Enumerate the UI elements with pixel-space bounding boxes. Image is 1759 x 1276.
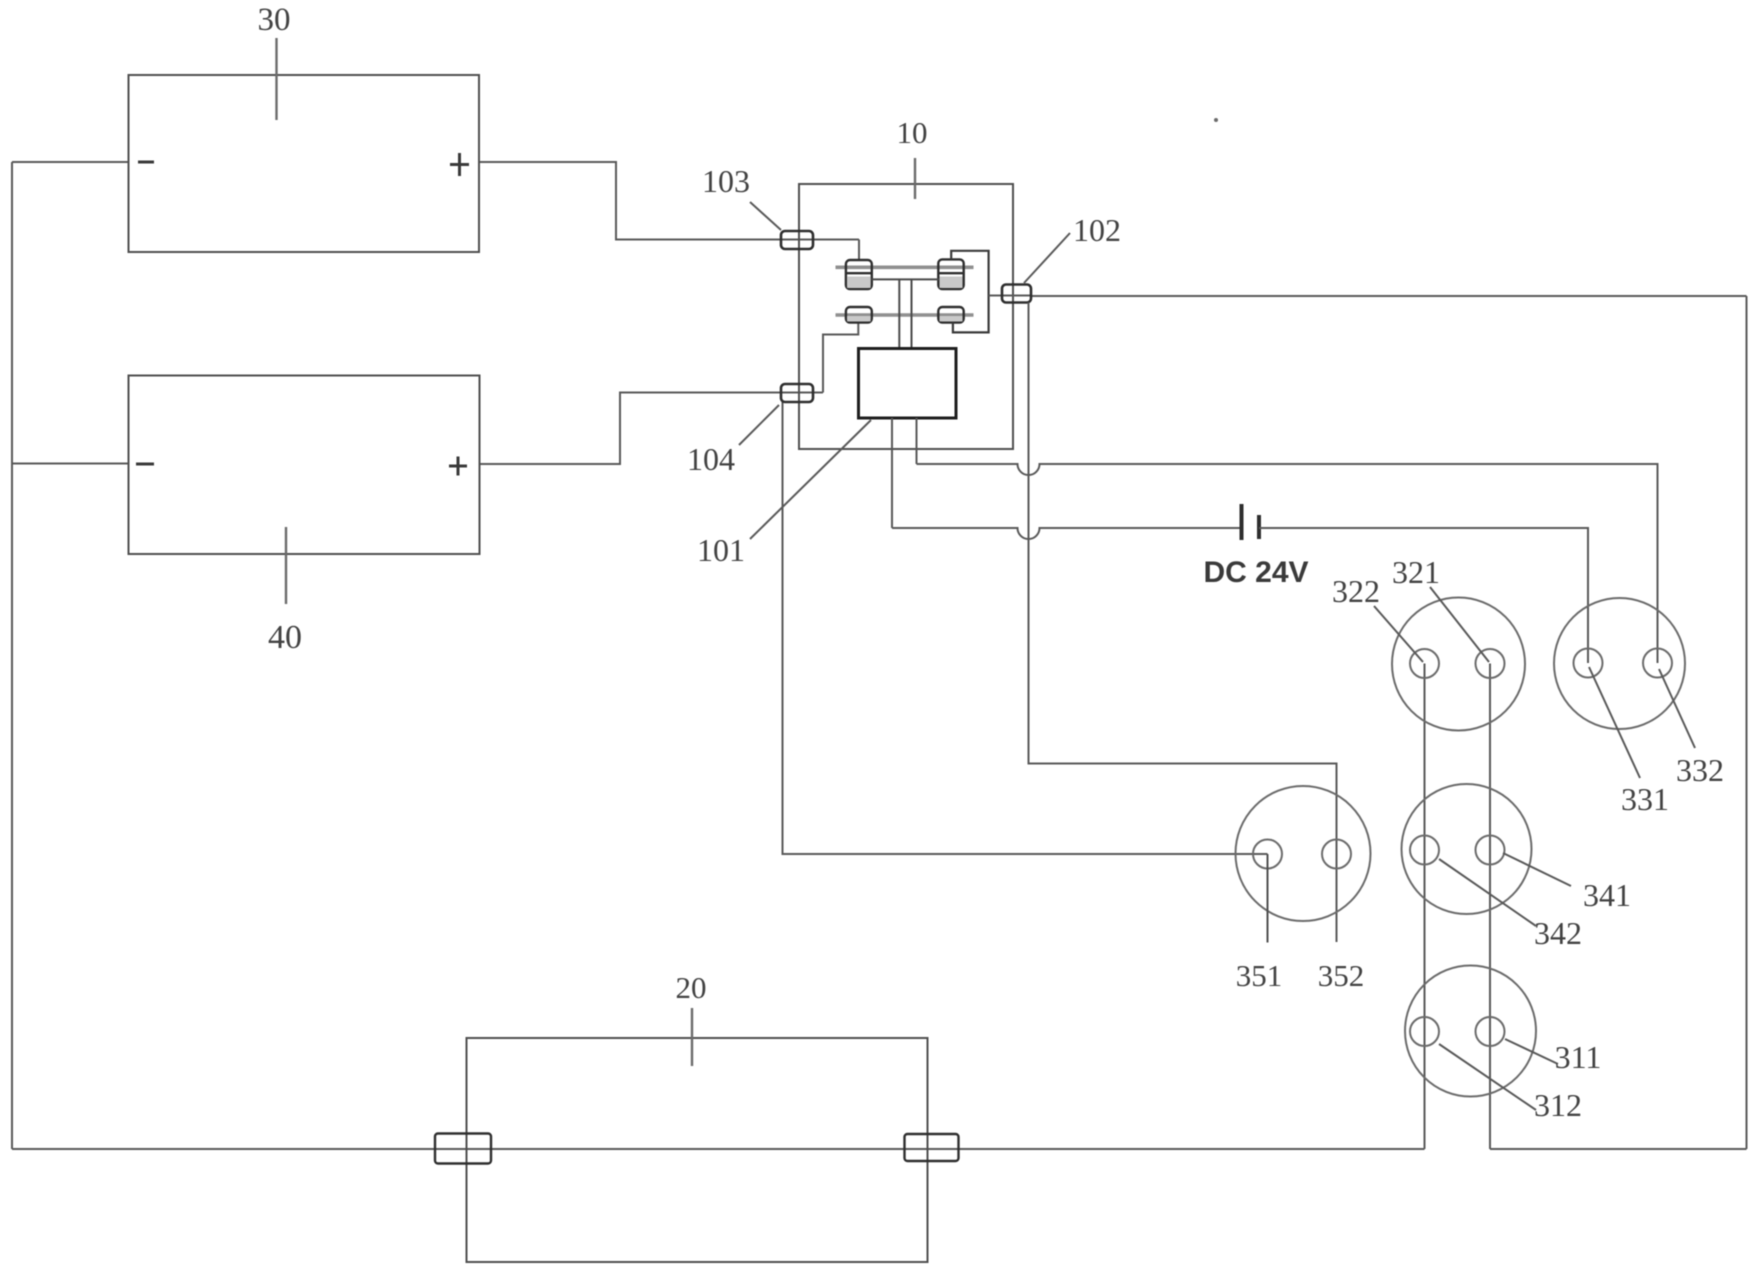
svg-text:322: 322	[1332, 573, 1380, 609]
svg-text:104: 104	[687, 441, 735, 477]
connector socket circle (351/352)	[1236, 786, 1371, 921]
pin 311	[1476, 1017, 1505, 1046]
wire inside box10 from terminal 104 to lower-left contact	[823, 323, 858, 393]
connector socket circle (321/322)	[1392, 598, 1525, 731]
pin 351	[1253, 840, 1282, 869]
pin 341	[1476, 836, 1505, 865]
svg-text:30: 30	[258, 2, 291, 38]
svg-text:351: 351	[1236, 958, 1283, 993]
contact lower-right	[938, 307, 963, 323]
wire battery40 minus	[12, 463, 129, 465]
wire coil left through battery to pin 331 with hop	[892, 528, 1240, 539]
pin 331	[1574, 649, 1603, 678]
bracket upper/lower right contacts to terminal 102	[951, 251, 988, 333]
box 40	[129, 376, 480, 555]
connector block box20 left	[435, 1134, 491, 1164]
wire node102 to right frame	[1031, 295, 1747, 297]
pin 322	[1410, 649, 1439, 678]
leader 332	[1659, 669, 1695, 748]
pin 312	[1410, 1017, 1439, 1046]
svg-text:40: 40	[268, 619, 302, 656]
leader 341	[1503, 853, 1571, 886]
leader 311	[1505, 1039, 1558, 1064]
svg-text:331: 331	[1621, 781, 1669, 817]
tick label 10	[914, 158, 916, 199]
leader 102	[1024, 233, 1070, 283]
connector socket circle (311/312)	[1405, 966, 1536, 1097]
wire terminal 102 down with bends	[1029, 303, 1337, 943]
tick label 40	[285, 527, 287, 604]
wire battery30 minus	[12, 161, 129, 163]
contact upper-left	[846, 260, 872, 289]
pin 321	[1476, 649, 1505, 678]
minus sign box30	[138, 161, 154, 164]
svg-text:102: 102	[1073, 212, 1121, 248]
wire coil right lead	[916, 418, 918, 464]
wire right frame vertical	[1746, 296, 1748, 1149]
pin 332	[1643, 649, 1672, 678]
armature T bar	[872, 279, 939, 348]
svg-text:103: 103	[702, 163, 750, 199]
tick label 20	[691, 1008, 693, 1066]
connector socket circle (331/332)	[1554, 598, 1685, 729]
terminal 103	[781, 231, 813, 249]
svg-text:342: 342	[1534, 915, 1582, 951]
wire verticals pins 322/321 down to bottom bus	[1425, 664, 1491, 1150]
box 10	[799, 184, 1013, 449]
leader 322	[1374, 606, 1423, 662]
box 30	[129, 75, 480, 252]
contact bus line lower	[836, 313, 974, 317]
box 20	[467, 1038, 928, 1262]
wire left frame vertical	[11, 162, 13, 1149]
tick label 30	[275, 38, 277, 120]
leader 312	[1439, 1044, 1536, 1110]
svg-text:DC 24V: DC 24V	[1203, 556, 1308, 589]
stray dot	[1214, 118, 1218, 122]
leader 321	[1430, 587, 1489, 662]
leader 104	[739, 405, 779, 445]
svg-text:332: 332	[1676, 752, 1724, 788]
plus sign box40	[449, 457, 467, 476]
svg-text:10: 10	[897, 115, 928, 150]
leader 342	[1439, 859, 1536, 926]
wire inside box10 from terminal 103 to upper-left contact	[858, 240, 860, 261]
svg-text:311: 311	[1555, 1039, 1602, 1075]
coil 101	[859, 349, 957, 419]
wire bottom bus left segment	[12, 1148, 1425, 1150]
wire coil right to pin 332 with hop	[917, 464, 1658, 663]
wire terminal104 down to pin 351	[783, 402, 1268, 854]
contact lower-left	[846, 307, 872, 323]
battery DC24V plates	[1240, 504, 1244, 540]
pin 342	[1410, 836, 1439, 865]
contact bus line upper	[836, 265, 974, 269]
leader 331	[1589, 667, 1640, 778]
label stubs 351 352	[1267, 854, 1269, 943]
wire battery40 plus to terminal 104	[480, 393, 824, 465]
pin 352	[1322, 840, 1351, 869]
wire bottom bus right segment	[1490, 1148, 1747, 1150]
terminal 102	[1002, 285, 1031, 303]
contact upper-right	[938, 259, 963, 289]
connector block box20 right	[905, 1134, 959, 1161]
svg-text:352: 352	[1318, 958, 1365, 993]
svg-text:312: 312	[1534, 1087, 1582, 1123]
svg-text:341: 341	[1583, 877, 1631, 913]
connector socket circle (341/342)	[1402, 784, 1532, 914]
wire battery to pin 331	[1259, 528, 1588, 663]
terminal 104	[781, 384, 813, 402]
wire battery30 plus to terminal 103	[479, 162, 859, 240]
svg-text:101: 101	[697, 532, 745, 568]
wire bracket to terminal 102	[989, 295, 1031, 297]
wire coil left lead	[891, 418, 893, 528]
svg-text:20: 20	[676, 970, 707, 1005]
plus sign box30	[450, 153, 469, 176]
minus sign box40	[136, 463, 154, 466]
leader 103	[750, 202, 781, 230]
svg-text:321: 321	[1392, 554, 1440, 590]
leader 101	[750, 420, 871, 539]
